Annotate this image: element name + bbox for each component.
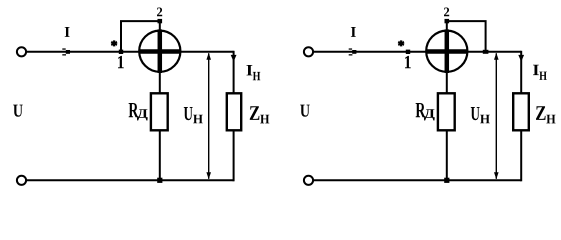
- current arrow I circuit 1: [62, 48, 70, 55]
- load current arrow In circuit 2: [518, 55, 524, 62]
- wire node 2 to coil circuit 1: [159, 21, 161, 32]
- wattmeter W2 voltage-coil bar (vertical): [445, 29, 450, 73]
- wire node 2 to coil circuit 2: [446, 21, 448, 32]
- voltage coil loop wire (node 2 over and down to output side) circuit 2: [447, 21, 486, 52]
- wattmeter W1 current-coil bar (horizontal): [139, 49, 181, 54]
- wattmeter measuring mechanism W2 (circle): [426, 31, 467, 72]
- input terminal (top) circuit 2: [304, 47, 313, 56]
- label In circuit 1: [247, 65, 253, 75]
- label 1 circuit 1: [118, 56, 124, 68]
- wattmeter W2 current-coil bar (horizontal): [426, 49, 468, 54]
- label U (source voltage) circuit 1: [13, 105, 23, 117]
- voltage coil loop wire (node 1 up and over to node 2) circuit 1: [121, 21, 160, 52]
- resistor Rd (additional resistance) circuit 2: [438, 93, 455, 130]
- wire bottom return circuit 1: [26, 179, 233, 181]
- voltage arrow Un (double headed) circuit 2: [495, 53, 497, 179]
- wire bottom return circuit 2: [313, 179, 521, 181]
- current arrow I circuit 2: [349, 48, 357, 55]
- load impedance Zn circuit 1: [227, 93, 241, 130]
- wattmeter measuring mechanism W1 (circle): [139, 31, 180, 72]
- node 1 (coil terminal, junction dot) circuit 2: [406, 50, 410, 54]
- wire top (terminal to load branch) circuit 1: [26, 51, 233, 53]
- junction dot bottom circuit 2: [444, 178, 449, 183]
- wire resistor Rd to bottom circuit 1: [159, 130, 161, 180]
- wire top to load Zn circuit 1: [233, 51, 235, 94]
- label 2 circuit 1: [157, 8, 162, 17]
- load impedance Zn circuit 2: [513, 93, 529, 130]
- node 1 (coil terminal, junction dot) circuit 1: [119, 50, 123, 54]
- label Zn circuit 2: [536, 106, 546, 120]
- wire coil to resistor Rd circuit 2: [446, 72, 448, 94]
- label Un circuit 2: [471, 107, 480, 120]
- junction dot on wire after coil circuit 2: [483, 50, 489, 54]
- label U (source voltage) circuit 2: [300, 105, 310, 117]
- input terminal (top) circuit 1: [17, 47, 26, 56]
- node 2 (voltage coil terminal dot) circuit 2: [445, 19, 450, 23]
- voltage arrow Un (double headed) circuit 1: [208, 53, 210, 179]
- wire top to load Zn circuit 2: [520, 51, 522, 94]
- label Rd circuit 1: [129, 103, 139, 117]
- input terminal (bottom) circuit 2: [304, 176, 313, 185]
- label Rd circuit 2: [416, 103, 426, 117]
- label Zn circuit 1: [250, 106, 260, 120]
- input terminal (bottom) circuit 1: [17, 176, 26, 185]
- wire resistor Rd to bottom circuit 2: [446, 130, 448, 180]
- label I circuit 1: [65, 27, 70, 37]
- wire coil to resistor Rd circuit 1: [159, 72, 161, 94]
- junction dot bottom circuit 1: [157, 178, 162, 183]
- load current arrow In circuit 1: [231, 55, 237, 62]
- resistor Rd (additional resistance) circuit 1: [151, 93, 168, 130]
- label I circuit 2: [351, 27, 356, 37]
- wire top (terminal to load branch) circuit 2: [313, 51, 521, 53]
- node 2 (voltage coil terminal dot) circuit 1: [158, 19, 163, 23]
- wire load Zn to bottom circuit 1: [233, 130, 235, 181]
- polarity mark * circuit 2: [398, 41, 404, 46]
- label In circuit 2: [533, 65, 539, 75]
- polarity mark * circuit 1: [111, 41, 117, 46]
- wire load Zn to bottom circuit 2: [520, 130, 522, 181]
- wattmeter W1 voltage-coil bar (vertical): [158, 29, 163, 73]
- label 1 circuit 2: [405, 56, 411, 68]
- label Un circuit 1: [184, 107, 193, 120]
- label 2 circuit 2: [444, 8, 449, 17]
